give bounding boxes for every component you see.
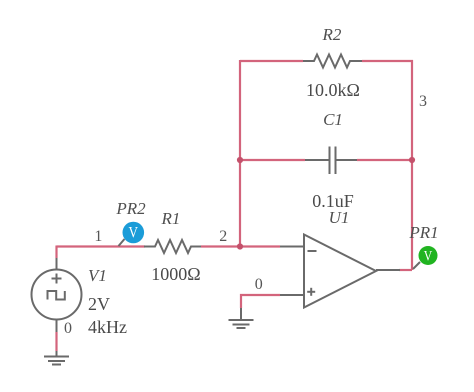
svg-text:3: 3 xyxy=(419,93,427,110)
svg-text:V: V xyxy=(129,225,139,242)
svg-text:C1: C1 xyxy=(323,110,343,129)
resistor R2 xyxy=(303,55,362,68)
svg-text:2: 2 xyxy=(219,228,227,245)
wire main input horizontal xyxy=(57,245,146,247)
wire top horizontal right of R2 xyxy=(362,60,413,62)
op-amp U1 xyxy=(280,235,400,308)
svg-text:10.0kΩ: 10.0kΩ xyxy=(306,80,360,100)
svg-text:4kHz: 4kHz xyxy=(88,317,127,337)
svg-text:1000Ω: 1000Ω xyxy=(151,264,200,284)
op-amp minus sign xyxy=(308,250,317,252)
wire C1 left xyxy=(240,159,305,161)
source V1 xyxy=(32,258,82,332)
V1 square-wave glyph xyxy=(48,291,65,300)
V1 plus sign xyxy=(52,274,62,284)
wire op-amp output xyxy=(399,269,412,271)
wire plus input (node 0) xyxy=(241,295,280,308)
resistor R1 xyxy=(144,240,201,253)
svg-text:V1: V1 xyxy=(88,266,107,285)
svg-text:U1: U1 xyxy=(329,208,350,227)
wire R1 right to op-amp xyxy=(201,245,280,247)
svg-text:0: 0 xyxy=(64,320,72,337)
wire top horizontal left of R2 xyxy=(240,60,303,62)
probe PR1 xyxy=(413,246,438,269)
probe PR2 xyxy=(119,222,145,246)
junction node 2 bottom xyxy=(237,243,243,249)
svg-text:PR1: PR1 xyxy=(408,223,438,242)
ground under V1 xyxy=(44,351,69,365)
ground at op-amp plus input xyxy=(229,308,254,328)
junction node 3 xyxy=(409,157,415,163)
svg-text:2V: 2V xyxy=(88,294,110,314)
wire V1 top vertical xyxy=(55,246,57,259)
svg-text:1: 1 xyxy=(94,228,102,245)
op-amp plus sign xyxy=(307,288,315,296)
capacitor C1 xyxy=(305,147,357,175)
wire V1 bottom to ground xyxy=(55,332,57,351)
junction node 2 top xyxy=(237,157,243,163)
wire right vertical (node 3) xyxy=(411,60,413,270)
svg-text:PR2: PR2 xyxy=(115,199,146,218)
svg-text:R2: R2 xyxy=(322,25,342,44)
svg-text:0: 0 xyxy=(255,276,263,293)
wire C1 right xyxy=(357,159,412,161)
svg-text:V: V xyxy=(424,248,433,264)
svg-text:R1: R1 xyxy=(161,209,181,228)
wire left vertical (node 2 branch) xyxy=(239,60,241,247)
